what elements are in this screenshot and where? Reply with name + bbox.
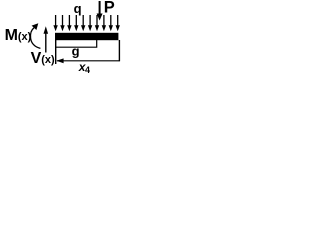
shear V(x) arrow: [44, 26, 49, 52]
svg-text:(x): (x): [18, 31, 32, 43]
moment arc M(x): [30, 28, 40, 49]
svg-text:q: q: [74, 1, 82, 16]
svg-text:g: g: [72, 44, 80, 59]
load arrow 6: [88, 15, 92, 31]
load arrow 1: [53, 15, 57, 31]
force P arrow: [97, 1, 103, 21]
cut face line: [55, 33, 57, 64]
load arrow 9: [109, 15, 113, 31]
beam (black band): [55, 33, 118, 40]
dimension line x4: [56, 58, 119, 63]
centroid leader g: [56, 40, 97, 47]
moment arrowhead: [32, 23, 39, 30]
dimension extension line: [118, 40, 120, 61]
load arrow 7: [95, 15, 99, 31]
svg-text:P: P: [104, 0, 115, 17]
load arrow 4: [74, 15, 78, 31]
svg-text:V: V: [31, 50, 42, 67]
svg-text:(x): (x): [41, 54, 55, 66]
svg-text:M: M: [5, 27, 18, 44]
load arrow 10: [116, 15, 120, 31]
load arrow 8: [102, 15, 106, 31]
svg-text:4: 4: [85, 65, 90, 75]
load arrow 5: [81, 15, 85, 31]
load arrow 3: [67, 15, 71, 31]
load arrow 2: [60, 15, 64, 31]
distributed load arrows: [53, 15, 120, 31]
